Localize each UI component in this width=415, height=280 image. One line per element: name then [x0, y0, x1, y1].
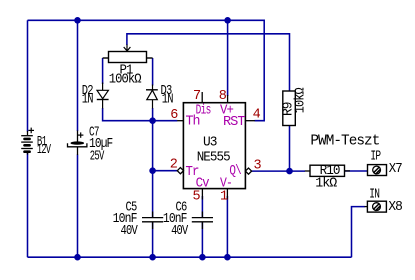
svg-text:X8: X8	[388, 200, 402, 215]
diode D3	[146, 85, 158, 109]
svg-text:100kΩ: 100kΩ	[109, 72, 142, 87]
svg-text:IP: IP	[370, 150, 381, 165]
battery B1	[21, 131, 33, 155]
wire C6 bottom to rail	[201, 223, 203, 258]
wire D3 to Th node	[152, 108, 154, 121]
wire pin3 output to R10	[252, 170, 305, 172]
R10 right stub	[345, 170, 351, 172]
op-amp U3 body	[183, 103, 245, 189]
svg-text:1N: 1N	[82, 92, 94, 107]
wire P1 right to D3	[152, 58, 154, 86]
wire D2 to Th node	[103, 108, 178, 121]
connector X8	[367, 201, 386, 212]
resistor R9	[283, 91, 296, 126]
svg-text:40V: 40V	[121, 224, 139, 239]
wire X8 to bottom rail	[352, 207, 365, 258]
svg-text:6: 6	[170, 108, 178, 123]
pin 5 stub	[201, 189, 203, 200]
connector X7	[368, 165, 387, 176]
svg-text:12V: 12V	[37, 143, 52, 158]
battery plus sign	[28, 128, 34, 134]
svg-text:10kΩ: 10kΩ	[294, 87, 309, 113]
svg-text:1N: 1N	[162, 92, 174, 107]
pin 7 stub	[201, 92, 203, 103]
svg-text:1kΩ: 1kΩ	[315, 177, 337, 192]
svg-text:NE555: NE555	[197, 151, 231, 166]
wire R9 bottom to output node	[289, 126, 291, 172]
svg-text:Th: Th	[186, 115, 200, 130]
wire C7 top branch	[77, 20, 79, 131]
junction C7 top	[74, 17, 81, 24]
wire top V+ rail to pin4	[28, 20, 265, 120]
junction rail C6	[199, 254, 206, 261]
pin 1 stub	[226, 189, 228, 200]
capacitor C5	[142, 212, 163, 230]
svg-text:IN: IN	[369, 188, 380, 203]
potentiometer P1	[103, 52, 153, 63]
wire Tr node to pin2	[153, 170, 177, 172]
svg-text:5: 5	[193, 190, 201, 205]
svg-text:40V: 40V	[171, 224, 189, 239]
wire Th node to Tr node and C5	[152, 121, 154, 217]
wire P1 left to D2	[102, 58, 104, 84]
junction rail C5	[149, 254, 156, 261]
capacitor C7	[68, 131, 87, 156]
wire pin1 to rail	[226, 196, 228, 257]
pin 4 stub	[245, 120, 254, 122]
junction V+	[224, 17, 231, 24]
wire pin5 to C6	[201, 196, 203, 217]
svg-text:U3: U3	[203, 136, 217, 151]
junction Tr node	[149, 167, 156, 174]
svg-text:X7: X7	[389, 162, 403, 177]
wire V+ junction to pin8	[227, 20, 229, 96]
wire battery minus to bottom rail	[27, 153, 29, 257]
pin 6 stub	[177, 120, 183, 122]
junction output R9	[286, 168, 293, 175]
diode D2	[97, 83, 109, 109]
X8 left stub	[365, 206, 368, 208]
capacitor C6	[192, 212, 213, 230]
junction rail C7	[74, 254, 81, 261]
wire C5 bottom to rail	[152, 223, 154, 258]
wire P1 wiper to R9 top	[127, 34, 290, 91]
junction Th node	[149, 117, 156, 124]
wire left rail to battery	[27, 20, 29, 131]
svg-text:3: 3	[254, 158, 262, 173]
svg-text:PWM-Teszt: PWM-Teszt	[310, 133, 379, 150]
svg-text:RST: RST	[223, 115, 245, 130]
pin 8 stub	[227, 95, 229, 103]
svg-text:2: 2	[170, 157, 178, 172]
junction rail pin1	[224, 254, 231, 261]
resistor R10	[310, 165, 345, 176]
pin 3 inversion diamond	[245, 168, 251, 174]
svg-text:8: 8	[219, 89, 227, 104]
svg-text:25V: 25V	[90, 149, 105, 164]
wire C7 bottom branch	[77, 155, 79, 258]
R10 left stub	[305, 170, 310, 172]
wire R10 to X7	[345, 170, 368, 172]
svg-text:7: 7	[193, 89, 201, 104]
svg-text:4: 4	[253, 108, 261, 123]
pin 2 inversion diamond	[177, 168, 183, 174]
C7 plus sign	[78, 132, 83, 137]
wire bottom ground rail	[28, 256, 352, 258]
svg-text:1: 1	[220, 190, 228, 205]
P1 wiper arrow	[124, 45, 131, 52]
